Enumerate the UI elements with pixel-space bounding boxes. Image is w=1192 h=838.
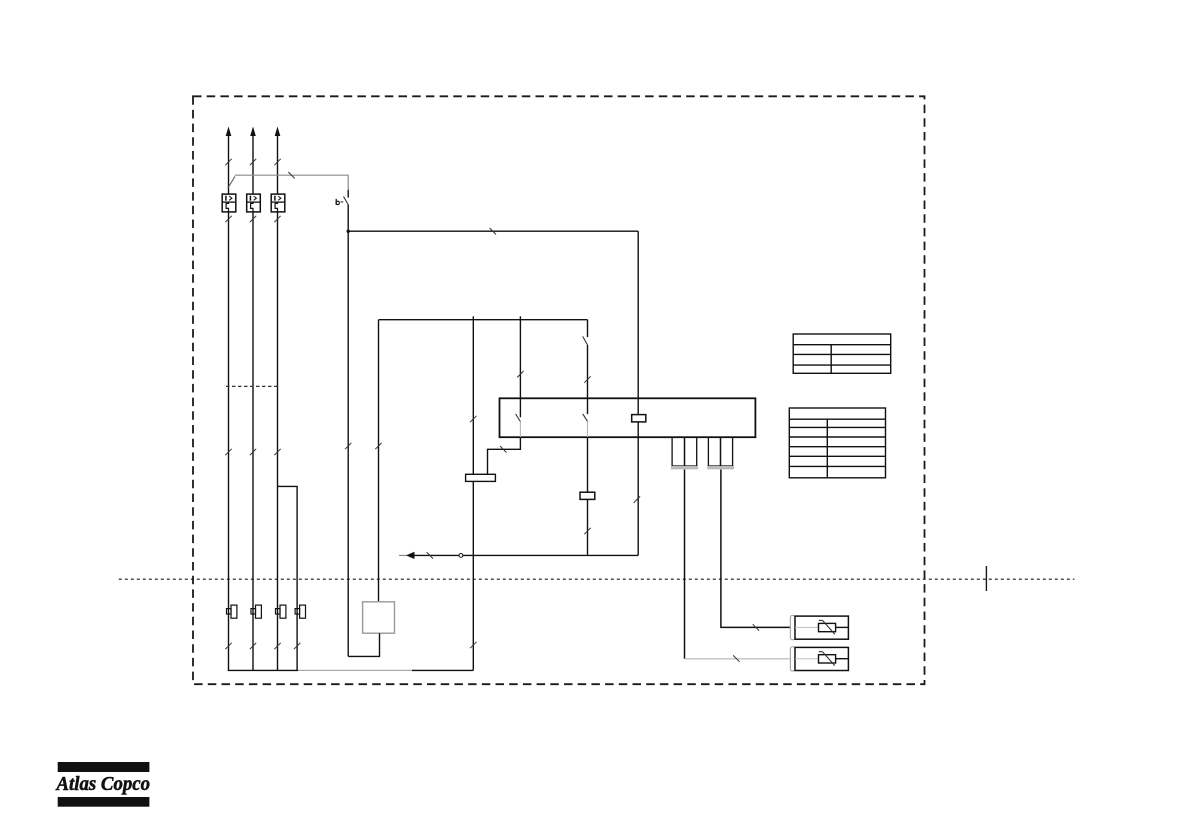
junction dot node xyxy=(347,230,350,233)
terminal fuse symbol 1 xyxy=(227,605,237,618)
slash mark L3 mid xyxy=(274,449,280,455)
slash mark L2 below breaker xyxy=(250,216,256,222)
feedback wire with arrow xyxy=(414,554,639,556)
top horizontal control wire xyxy=(348,230,638,232)
relay return wire xyxy=(348,633,379,656)
slash mark step wire xyxy=(500,446,506,452)
bottom return wire black left xyxy=(228,669,298,671)
branch wire L3 to fourth line xyxy=(278,486,298,670)
cabinet/field separator dotted line xyxy=(119,578,1075,580)
slash mark x473 bottom xyxy=(470,642,476,648)
Atlas Copco logo top bar xyxy=(58,762,150,772)
main control wire vertical x348 xyxy=(347,205,349,657)
phase wire L1 upper xyxy=(228,135,230,194)
phase wire L3 upper xyxy=(277,135,279,194)
pilot wire gray xyxy=(235,175,348,190)
supply arrow L2 xyxy=(250,127,256,137)
phase wire L2 upper xyxy=(252,135,254,194)
bottom return wire black right xyxy=(412,669,473,671)
slash mark L1 below breaker xyxy=(225,216,231,222)
supply arrow L1 xyxy=(226,127,232,137)
contactor block xyxy=(500,398,756,437)
terminal fuse symbol 2 xyxy=(251,605,261,618)
junction nub x520 xyxy=(519,316,521,319)
wire through block x638 xyxy=(637,398,639,437)
legend table small xyxy=(793,334,891,373)
phase wire L3 lower xyxy=(277,212,279,671)
slash mark L1 xyxy=(225,159,231,165)
wire x587 upper with contact xyxy=(587,320,589,337)
circuit breaker pole 2 xyxy=(247,194,261,212)
breaker pole linkage dashed xyxy=(226,385,280,387)
bottom return wire gray middle xyxy=(298,669,412,671)
phase wire L1 lower xyxy=(228,212,230,671)
slash mark sensor2 wire xyxy=(733,655,739,661)
mid horizontal control wire xyxy=(379,319,588,321)
terminal fuse symbol 4 xyxy=(295,605,305,618)
coil element on x587 xyxy=(580,492,595,499)
slash mark L3 xyxy=(274,159,280,165)
circuit breaker pole 3 xyxy=(271,194,285,212)
slash mark x348 xyxy=(345,443,351,449)
wire x520 upper xyxy=(519,320,521,399)
slash mark top wire xyxy=(490,228,496,234)
junction nub x473 xyxy=(472,316,474,319)
coil element on x638 xyxy=(632,415,646,422)
slash mark L2 mid xyxy=(250,449,256,455)
slash mark x587 xyxy=(584,376,590,382)
slash mark x520 xyxy=(517,371,523,377)
connector pin B2 xyxy=(721,437,733,466)
slash mark line4 xyxy=(294,643,300,649)
slash mark L1 bottom xyxy=(225,643,231,649)
supply arrow L3 xyxy=(275,127,281,137)
temperature sensor 1 xyxy=(790,615,848,639)
slash mark x587 low xyxy=(584,528,590,534)
slash mark L2 bottom xyxy=(250,643,256,649)
legend table large xyxy=(789,408,885,478)
connector pin A1 xyxy=(672,437,684,466)
slash mark x378 xyxy=(375,443,381,449)
slash mark pilot wire xyxy=(288,172,294,178)
ring node on feedback wire xyxy=(459,554,463,558)
pilot tap diagonal from breaker 1 xyxy=(228,176,235,188)
wire x587 below block xyxy=(587,437,589,492)
step wire to terminal bar xyxy=(488,437,521,474)
slash mark x638 xyxy=(634,496,640,502)
slash mark L2 xyxy=(250,159,256,165)
auxiliary contact b xyxy=(347,190,349,198)
connector pin A2 xyxy=(685,437,697,466)
Atlas Copco logo bottom bar xyxy=(58,797,150,807)
svg-text:Atlas Copco: Atlas Copco xyxy=(55,773,150,795)
wire x473 lower xyxy=(472,481,474,670)
separator end tick xyxy=(985,566,987,591)
connector base A xyxy=(671,466,698,469)
wire to sensor 1 xyxy=(721,470,795,628)
right drop wire x638 upper xyxy=(637,231,639,398)
circuit breaker pole 1 xyxy=(222,194,236,212)
slash mark sensor1 wire xyxy=(753,624,759,630)
phase wire L2 lower xyxy=(252,212,254,671)
connector pin B1 xyxy=(708,437,720,466)
slash mark x473 xyxy=(470,416,476,422)
contact inside block x587 xyxy=(587,398,589,414)
contact inside block x520 xyxy=(519,398,521,417)
relay box K xyxy=(363,602,395,633)
relay feed wire x378 xyxy=(378,320,380,602)
enclosure dashed border xyxy=(193,96,925,684)
terminal bar xyxy=(466,474,496,481)
temperature sensor 2 xyxy=(790,647,848,671)
slash mark L3 bottom xyxy=(274,643,280,649)
slash mark L1 mid xyxy=(225,449,231,455)
wire to sensor 2 vertical xyxy=(684,470,686,659)
connector base B xyxy=(707,466,734,469)
wire x473 upper xyxy=(472,320,474,475)
wire to sensor 2 gray horizontal xyxy=(685,658,796,660)
slash mark L3 below breaker xyxy=(274,216,280,222)
terminal fuse symbol 3 xyxy=(276,605,286,618)
slash mark feedback wire xyxy=(427,552,433,558)
wire x638 below block xyxy=(637,437,639,555)
